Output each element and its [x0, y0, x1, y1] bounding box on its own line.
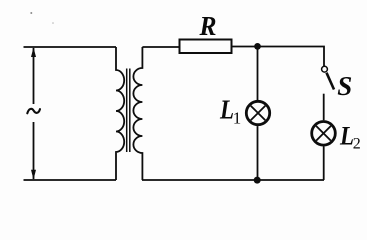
svg-text:R: R	[199, 11, 217, 41]
svg-text:L: L	[219, 94, 234, 124]
svg-text:L: L	[339, 122, 354, 151]
svg-text:2: 2	[353, 136, 361, 153]
svg-text:1: 1	[233, 109, 242, 128]
svg-text:S: S	[337, 71, 352, 101]
